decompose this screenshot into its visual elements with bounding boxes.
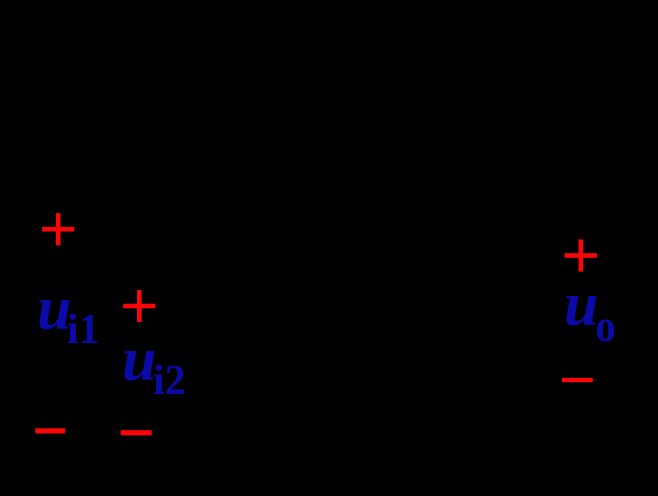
polarity - of u_i2 (121, 430, 152, 435)
svg-text:u: u (564, 271, 598, 339)
wire: input 2 to resistor R2 (164, 305, 196, 308)
junction: input 2 (-) on bottom rail (156, 427, 164, 435)
ground (386, 431, 414, 466)
output terminal (-) (620, 396, 628, 404)
wire: bottom rail to output terminal (-) (545, 400, 620, 431)
input terminal 1 (-) (82, 427, 90, 435)
wire: bottom rail (86, 430, 545, 433)
wire: R2 to non-inverting input (258, 305, 292, 308)
resistor R1 (150, 219, 212, 239)
svg-text:−: − (300, 218, 314, 244)
wire: op-amp output to output terminal (432, 267, 620, 270)
polarity - of u_o (562, 378, 593, 382)
input terminal 1 (+) (82, 225, 90, 233)
node C (output node) (466, 264, 474, 272)
wire: node B down to R3 (274, 306, 277, 350)
svg-text:i1: i1 (67, 307, 100, 353)
resistor RF (feedback) (300, 140, 362, 160)
resistor R3 (265, 350, 285, 408)
label u_i2 (122, 326, 186, 404)
input terminal 2 (+) (156, 302, 164, 310)
polarity - of u_i1 (35, 428, 65, 433)
wire: node A up to feedback (245, 150, 248, 229)
input terminal 2 (-) (156, 427, 164, 435)
label u_i1 (37, 275, 100, 353)
svg-text:o: o (596, 302, 616, 352)
op-amp U1 (292, 192, 432, 344)
svg-text:u: u (122, 326, 156, 394)
svg-text:i2: i2 (153, 358, 186, 404)
polarity + of u_o (565, 239, 597, 271)
wire: R1 to inverting input node (212, 228, 292, 231)
wire: node A to RF (246, 149, 300, 152)
wire: input 1 to resistor R1 (90, 228, 150, 231)
junction: R3 on bottom rail (271, 427, 279, 435)
output terminal (+) (620, 264, 628, 272)
polarity + of u_i1 (42, 213, 74, 245)
wire: RF to output node (362, 150, 470, 268)
node B (non-inverting input node) (271, 302, 279, 310)
junction: ground on bottom rail (396, 427, 404, 435)
svg-text:+: + (300, 295, 314, 321)
svg-text:∞: ∞ (320, 224, 341, 257)
label u_o (564, 271, 616, 352)
wire: R3 to bottom rail (274, 408, 277, 431)
polarity + of u_i2 (123, 290, 155, 322)
resistor R2 (196, 296, 258, 316)
node A (inverting input node) (242, 225, 250, 233)
